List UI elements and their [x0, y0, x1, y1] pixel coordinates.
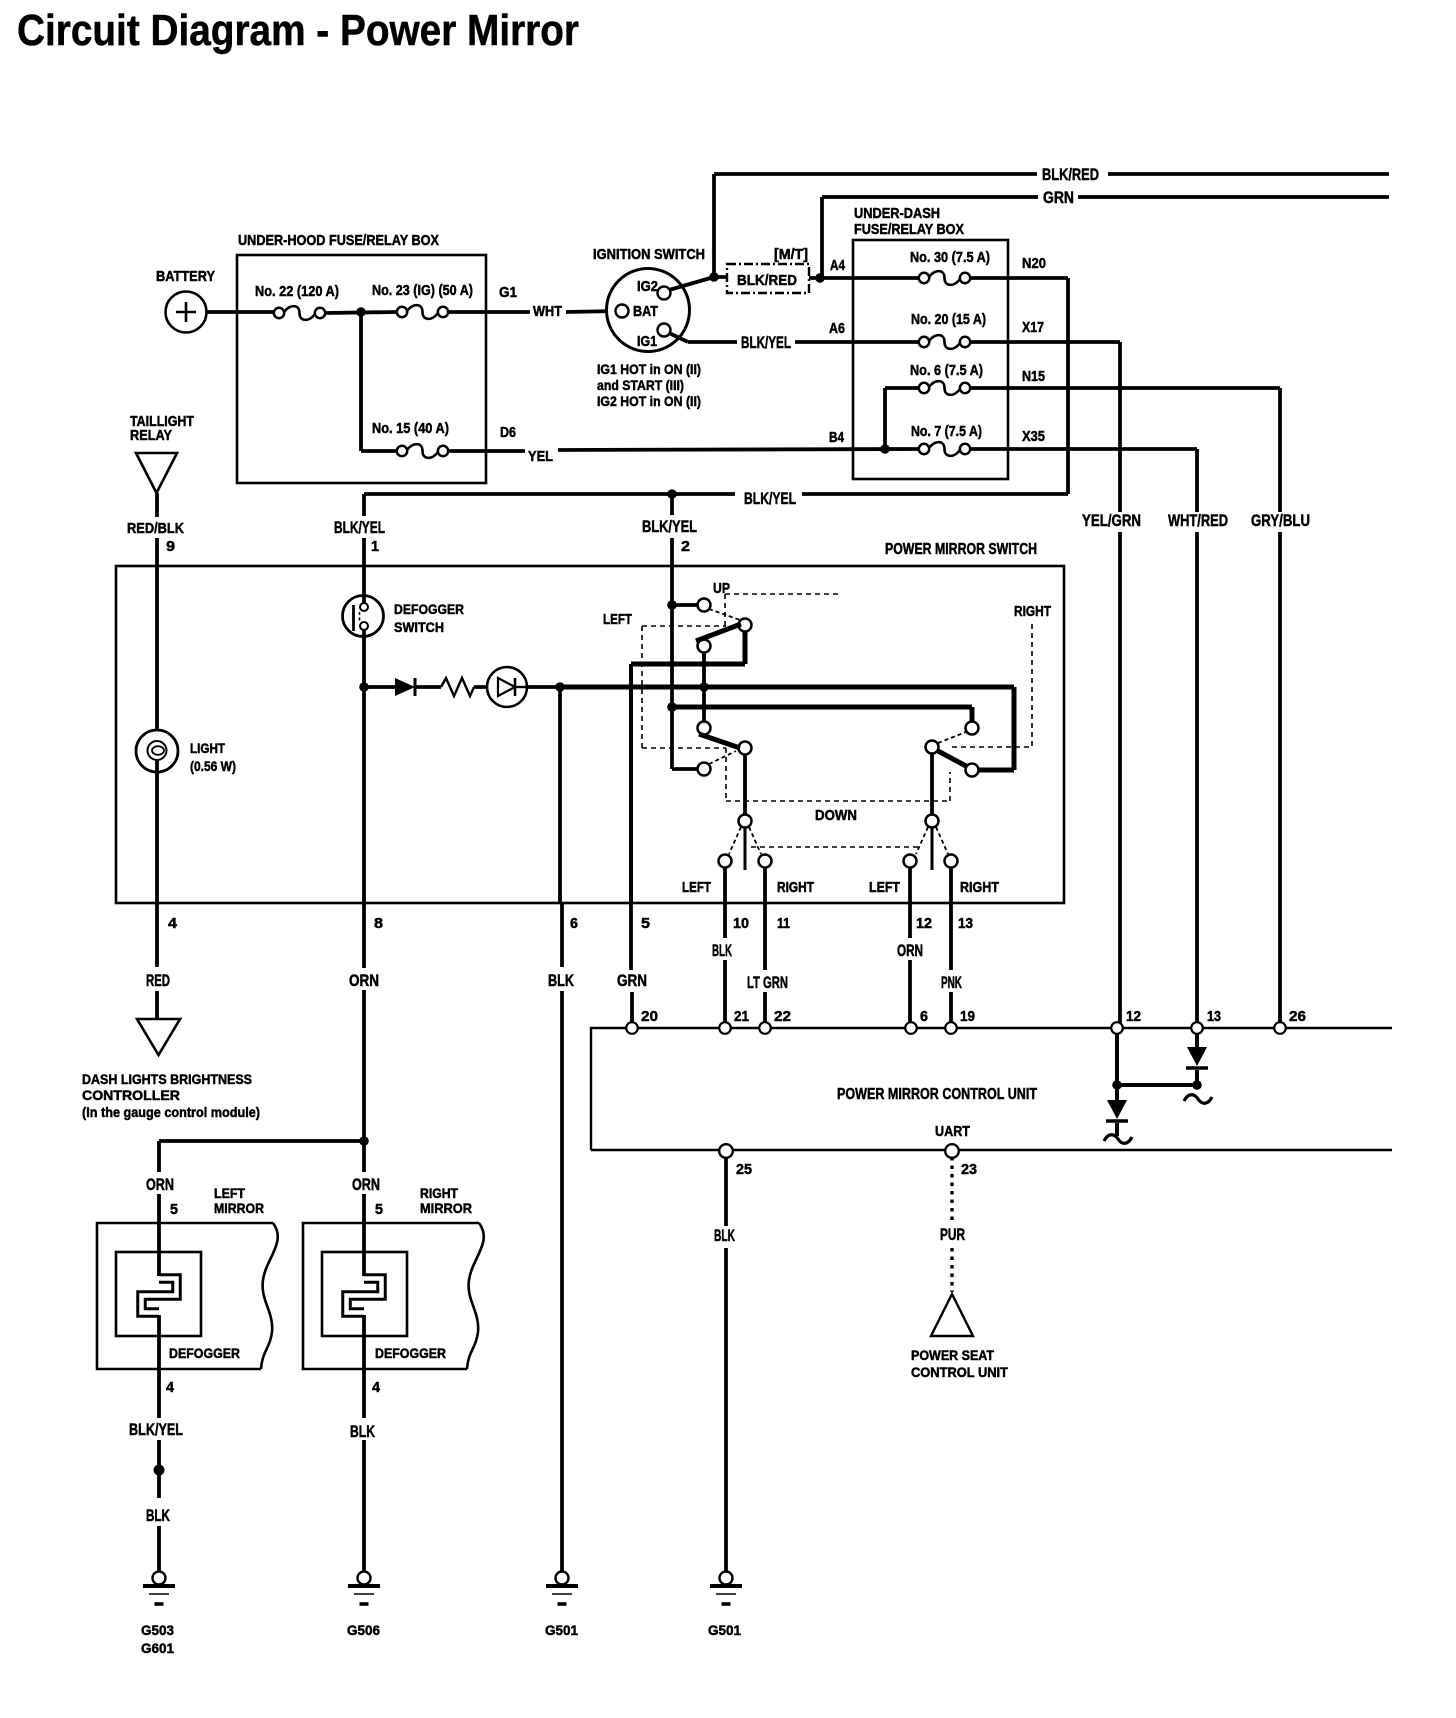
svg-text:20: 20 [641, 1008, 658, 1025]
svg-text:6: 6 [570, 915, 578, 932]
svg-text:RIGHT: RIGHT [420, 1185, 458, 1201]
svg-text:G501: G501 [708, 1622, 741, 1638]
svg-text:BLK/RED: BLK/RED [737, 272, 797, 289]
svg-text:X17: X17 [1022, 319, 1044, 336]
svg-text:LIGHT: LIGHT [190, 740, 225, 756]
svg-text:5: 5 [375, 1201, 383, 1218]
svg-text:12: 12 [1126, 1008, 1141, 1025]
svg-text:4: 4 [166, 1379, 175, 1396]
svg-text:A6: A6 [829, 320, 845, 337]
svg-text:and START (III): and START (III) [597, 377, 684, 393]
svg-text:(In the gauge control module): (In the gauge control module) [82, 1104, 260, 1120]
svg-text:BLK/YEL: BLK/YEL [741, 333, 791, 352]
svg-text:G1: G1 [499, 284, 517, 301]
svg-text:UART: UART [935, 1123, 970, 1140]
svg-text:[M/T]: [M/T] [774, 246, 808, 263]
svg-text:PNK: PNK [941, 973, 962, 992]
svg-text:ORN: ORN [146, 1175, 174, 1194]
svg-text:RIGHT: RIGHT [960, 879, 999, 896]
svg-text:UNDER-DASH: UNDER-DASH [854, 205, 940, 222]
svg-text:CONTROLLER: CONTROLLER [82, 1087, 180, 1103]
svg-text:IGNITION SWITCH: IGNITION SWITCH [593, 246, 705, 263]
svg-text:13: 13 [958, 915, 973, 932]
svg-text:26: 26 [1289, 1008, 1306, 1025]
svg-text:N15: N15 [1022, 368, 1045, 385]
svg-text:POWER MIRROR SWITCH: POWER MIRROR SWITCH [885, 541, 1037, 558]
svg-text:CONTROL UNIT: CONTROL UNIT [911, 1364, 1008, 1380]
svg-text:A4: A4 [830, 257, 846, 274]
svg-text:UNDER-HOOD FUSE/RELAY BOX: UNDER-HOOD FUSE/RELAY BOX [238, 232, 439, 249]
svg-text:6: 6 [920, 1008, 928, 1025]
svg-text:BLK/YEL: BLK/YEL [642, 517, 697, 536]
svg-text:5: 5 [641, 915, 650, 932]
svg-text:No. 23 (IG) (50 A): No. 23 (IG) (50 A) [372, 282, 473, 299]
svg-text:ORN: ORN [352, 1175, 380, 1194]
svg-text:(0.56 W): (0.56 W) [190, 758, 236, 774]
svg-text:9: 9 [166, 538, 175, 555]
svg-text:11: 11 [777, 915, 790, 932]
svg-text:RED: RED [146, 971, 170, 990]
svg-text:No. 30 (7.5 A): No. 30 (7.5 A) [910, 249, 990, 266]
svg-text:FUSE/RELAY BOX: FUSE/RELAY BOX [854, 221, 964, 238]
svg-text:BAT: BAT [633, 303, 658, 320]
svg-text:8: 8 [374, 915, 383, 932]
svg-text:DEFOGGER: DEFOGGER [394, 601, 464, 617]
svg-text:1: 1 [371, 538, 379, 555]
svg-text:RIGHT: RIGHT [1014, 603, 1051, 620]
svg-text:DEFOGGER: DEFOGGER [375, 1345, 446, 1361]
svg-text:10: 10 [733, 915, 749, 932]
svg-text:BLK: BLK [350, 1422, 376, 1441]
svg-text:No. 20 (15 A): No. 20 (15 A) [911, 311, 986, 328]
svg-text:WHT/RED: WHT/RED [1168, 511, 1228, 530]
svg-text:IG2: IG2 [637, 278, 658, 295]
svg-text:RELAY: RELAY [130, 427, 172, 444]
svg-text:G501: G501 [545, 1622, 578, 1638]
svg-text:GRN: GRN [1043, 188, 1074, 207]
svg-text:IG1 HOT in ON (II): IG1 HOT in ON (II) [597, 361, 701, 377]
svg-text:LT GRN: LT GRN [747, 973, 788, 992]
svg-text:BLK/YEL: BLK/YEL [744, 489, 796, 508]
svg-text:LEFT: LEFT [603, 611, 632, 628]
svg-text:22: 22 [774, 1008, 791, 1025]
svg-text:No. 6 (7.5 A): No. 6 (7.5 A) [910, 362, 983, 379]
svg-text:B4: B4 [829, 429, 845, 446]
svg-text:YEL: YEL [528, 448, 553, 465]
svg-text:21: 21 [734, 1008, 749, 1025]
svg-text:GRY/BLU: GRY/BLU [1251, 511, 1310, 530]
svg-text:RED/BLK: RED/BLK [127, 520, 184, 537]
svg-text:LEFT: LEFT [682, 879, 711, 896]
svg-text:G503: G503 [141, 1622, 174, 1638]
svg-text:ORN: ORN [897, 941, 923, 960]
svg-text:Circuit Diagram - Power Mirror: Circuit Diagram - Power Mirror [17, 6, 579, 55]
svg-text:POWER MIRROR CONTROL UNIT: POWER MIRROR CONTROL UNIT [837, 1086, 1037, 1103]
svg-text:No. 22 (120 A): No. 22 (120 A) [255, 283, 339, 300]
svg-text:LEFT: LEFT [214, 1185, 245, 1201]
svg-text:25: 25 [736, 1161, 752, 1178]
svg-text:SWITCH: SWITCH [394, 619, 444, 635]
svg-text:19: 19 [960, 1008, 975, 1025]
svg-text:YEL/GRN: YEL/GRN [1082, 511, 1141, 530]
svg-text:IG1: IG1 [637, 333, 657, 350]
svg-text:DOWN: DOWN [815, 807, 857, 824]
svg-text:MIRROR: MIRROR [420, 1200, 472, 1216]
svg-text:No. 7 (7.5 A): No. 7 (7.5 A) [911, 423, 982, 440]
svg-text:G506: G506 [347, 1622, 380, 1638]
svg-text:4: 4 [168, 915, 178, 932]
svg-text:IG2 HOT in ON (II): IG2 HOT in ON (II) [597, 393, 701, 409]
svg-text:BLK/YEL: BLK/YEL [334, 518, 385, 537]
svg-text:N20: N20 [1022, 255, 1046, 272]
svg-text:RIGHT: RIGHT [777, 879, 814, 896]
svg-text:BATTERY: BATTERY [156, 268, 215, 285]
svg-text:13: 13 [1207, 1008, 1221, 1025]
svg-text:DASH LIGHTS BRIGHTNESS: DASH LIGHTS BRIGHTNESS [82, 1071, 252, 1087]
svg-text:WHT: WHT [533, 303, 562, 320]
svg-text:No. 15 (40 A): No. 15 (40 A) [372, 420, 449, 437]
svg-text:BLK: BLK [712, 941, 732, 960]
svg-text:POWER SEAT: POWER SEAT [911, 1347, 994, 1363]
svg-text:BLK: BLK [146, 1506, 170, 1525]
svg-text:PUR: PUR [940, 1225, 965, 1244]
svg-text:LEFT: LEFT [869, 879, 900, 896]
svg-text:X35: X35 [1022, 428, 1045, 445]
svg-text:23: 23 [961, 1161, 977, 1178]
svg-text:DEFOGGER: DEFOGGER [169, 1345, 240, 1361]
svg-text:MIRROR: MIRROR [214, 1200, 264, 1216]
svg-text:D6: D6 [500, 424, 516, 441]
svg-text:12: 12 [916, 915, 932, 932]
svg-text:4: 4 [372, 1379, 381, 1396]
svg-text:ORN: ORN [349, 971, 379, 990]
svg-text:GRN: GRN [617, 971, 647, 990]
svg-text:G601: G601 [141, 1640, 174, 1656]
svg-text:2: 2 [681, 538, 690, 555]
svg-text:BLK: BLK [714, 1226, 735, 1245]
svg-text:BLK/YEL: BLK/YEL [129, 1420, 183, 1439]
svg-text:BLK/RED: BLK/RED [1042, 165, 1099, 184]
svg-text:5: 5 [170, 1201, 178, 1218]
svg-text:BLK: BLK [548, 971, 575, 990]
